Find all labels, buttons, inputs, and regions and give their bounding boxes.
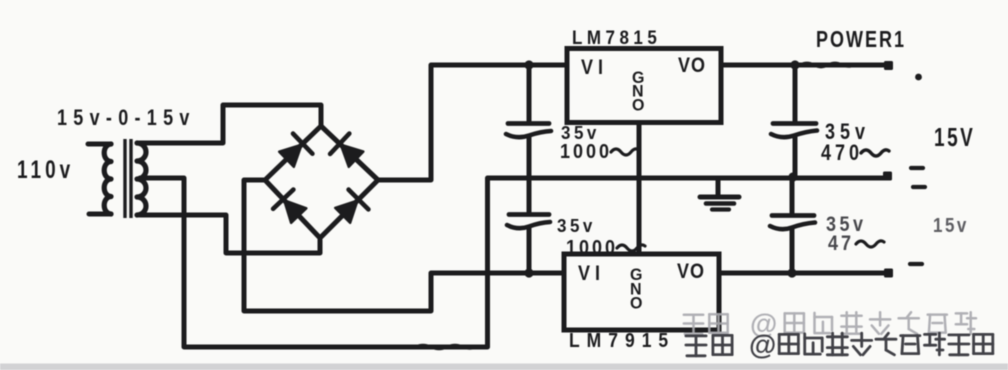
label U2 LM7915 (569, 329, 675, 351)
svg-text:VI: VI (581, 56, 608, 80)
svg-text:15v: 15v (933, 214, 969, 237)
capacitor C3 bottom lead (793, 136, 798, 177)
U2 pin label VI (578, 262, 605, 286)
capacitor C3 top lead (793, 66, 798, 121)
label C4 u squiggle (856, 241, 884, 247)
capacitor C4 plate (772, 213, 814, 218)
wire primary bottom lead (89, 212, 111, 217)
wire -15V output rail (719, 271, 885, 276)
label C3 35v (825, 120, 870, 144)
label 15v-0-15v (57, 106, 196, 130)
regulator U2 box (564, 254, 719, 330)
bottom gray band (0, 364, 1008, 370)
svg-text:35v: 35v (557, 215, 596, 236)
label C3 470u (821, 141, 863, 165)
wire 0V bottom run scribble (415, 345, 476, 349)
label C1 35v (561, 122, 600, 143)
watermark @engineer-assistant-xiaoqi (0, 0, 1, 1)
capacitor C4 curved plate (770, 223, 815, 230)
svg-text:1000: 1000 (560, 141, 612, 163)
wire DC+ : bridge right corner to U1 VI (378, 65, 566, 180)
U2 GND label O (630, 294, 644, 312)
label C4 35v (826, 213, 867, 237)
watermark @ee-engineer-assistant-xiaoqi (0, 0, 1, 1)
label C3 u squiggle (861, 150, 889, 156)
capacitor C3 plate (773, 121, 816, 126)
polarity dash 1 (911, 166, 923, 170)
svg-text:O: O (630, 294, 644, 312)
wire primary top lead (88, 142, 111, 147)
capacitor C1 plate (508, 121, 549, 126)
U1 GND label O (632, 96, 646, 114)
wire AC top: secondary top lead to bridge top (140, 105, 321, 143)
bridge rectifier diamond (265, 126, 378, 238)
label POWER1 (816, 27, 906, 53)
capacitor C4 bottom lead (790, 228, 795, 272)
svg-text:LM7915: LM7915 (569, 329, 675, 351)
svg-text:47: 47 (828, 232, 854, 256)
terminal pin +15V (884, 61, 893, 70)
label C1 u squiggle (611, 149, 639, 155)
label 110v (17, 156, 74, 184)
label C2 35v (557, 215, 596, 236)
svg-text:470: 470 (821, 141, 863, 165)
label C1 1000u (560, 141, 612, 163)
U2 pin label VO (677, 260, 705, 284)
junction C3-C4/0V rail (788, 172, 797, 181)
capacitor C2 curved plate (507, 222, 550, 228)
terminal pin 0V (883, 172, 892, 181)
wire +15V output rail (721, 63, 885, 68)
U2 GND label N (630, 280, 643, 298)
watermark zhihu logo text (684, 314, 728, 334)
svg-text:LM7815: LM7815 (572, 26, 661, 48)
capacitor C2 top lead (527, 178, 532, 212)
polarity dot (915, 74, 922, 81)
svg-text:O: O (632, 96, 646, 114)
label -15V output (933, 214, 969, 237)
svg-text:VO: VO (677, 260, 705, 284)
svg-text:35v: 35v (561, 122, 600, 143)
capacitor C3 curved plate (771, 131, 817, 138)
svg-text:15v-0-15v: 15v-0-15v (57, 106, 196, 130)
svg-text:15V: 15V (934, 123, 975, 151)
svg-text:VI: VI (578, 262, 605, 286)
transformer core (125, 139, 131, 218)
ground symbol bar 2 (706, 201, 734, 206)
label C4 470u (828, 232, 854, 256)
regulator U1 box (567, 49, 721, 123)
wire U1/U2 GND pins to 0V rail (637, 123, 642, 253)
U2 GND label G (630, 266, 644, 284)
svg-text:@: @ (749, 329, 776, 360)
junction C1/top rail (524, 60, 533, 69)
capacitor C2 plate (509, 212, 549, 217)
svg-text:VO: VO (678, 54, 706, 78)
wire 0V rail: center tap, bottom run, mid rail (140, 178, 884, 347)
svg-text:110v: 110v (17, 156, 74, 184)
wire +15V rail scribble (800, 63, 854, 67)
ground symbol stem (716, 179, 721, 195)
junction C4/-15V rail (787, 268, 796, 277)
polarity dash 2 (913, 185, 925, 189)
U1 pin label VI (581, 56, 608, 80)
ground symbol bar 3 (712, 207, 729, 211)
junction C3/top rail (790, 60, 799, 69)
terminal pin -15V (884, 269, 893, 278)
label U1 LM7815 (572, 26, 661, 48)
polarity dash 3 (910, 262, 922, 266)
svg-text:POWER1: POWER1 (816, 27, 906, 53)
capacitor C1 curved plate (506, 131, 551, 137)
U1 pin label VO (678, 54, 706, 78)
label C2 1000u (566, 237, 618, 259)
diode D4 (bottom-right, points from - corner) (335, 190, 368, 223)
capacitor C1 top lead (527, 65, 532, 122)
diode D1 (top-left, points to + corner) (279, 134, 312, 167)
label C2 u squiggle (617, 245, 645, 251)
capacitor C4 top lead (790, 178, 795, 213)
junction C2/VI rail (524, 268, 533, 277)
ground symbol bar 1 (700, 195, 739, 200)
capacitor C1 bottom lead (527, 136, 532, 178)
wire DC- : bridge left corner to U2 VI (244, 180, 563, 311)
capacitor C2 bottom lead (527, 227, 532, 272)
diode D2 (top-right, points to + corner) (330, 134, 363, 167)
transformer T1 primary winding (104, 144, 111, 214)
diode D3 (bottom-left, points from - corner) (273, 190, 306, 223)
label +15V output (934, 123, 975, 151)
U1 GND label G (632, 69, 646, 87)
watermark toutiao logo text (686, 335, 732, 355)
wire AC bottom: secondary bottom lead to bridge bottom (140, 215, 320, 253)
U1 GND label N (632, 82, 645, 100)
transformer T1 secondary winding (137, 143, 146, 215)
